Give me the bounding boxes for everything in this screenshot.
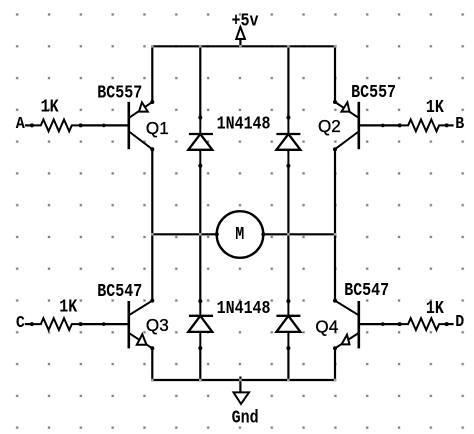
junction motor rail / D2-D4 column <box>287 233 290 236</box>
wire R2 to Q2 base <box>359 124 400 128</box>
resistor R4 <box>398 318 449 330</box>
wire node B to R2 <box>447 124 453 126</box>
diode D4 (1N4148) <box>276 299 300 350</box>
junction bottom rail / Q3 emitter <box>151 379 154 382</box>
transistor Q4 (BC547 NPN) <box>333 299 359 351</box>
diode D3 (1N4148) <box>188 299 213 350</box>
svg-text:BC547: BC547 <box>97 282 142 303</box>
junction top rail / +5v stem <box>239 45 242 48</box>
wire motor rail to D4 cathode <box>287 234 289 301</box>
wire Q3 emitter to ground rail <box>151 348 153 380</box>
svg-text:M: M <box>235 225 244 246</box>
wire top rail (+5v net) <box>152 45 335 47</box>
svg-text:Gnd: Gnd <box>232 408 259 429</box>
svg-text:Q1: Q1 <box>146 118 169 139</box>
junction bottom rail / D4 <box>287 379 290 382</box>
svg-text:1K: 1K <box>426 97 445 118</box>
svg-text:1K: 1K <box>41 97 60 118</box>
wire D2 anode to motor rail <box>287 166 289 235</box>
svg-text:BC557: BC557 <box>351 83 396 104</box>
wire node C to R3 <box>26 323 32 325</box>
wire R1 to Q1 base <box>81 124 129 128</box>
junction motor rail / D1-D3 column <box>199 233 202 236</box>
wire R4 to Q4 base <box>359 322 400 326</box>
wire D3 anode to ground rail <box>199 348 201 380</box>
motor M1 <box>215 211 265 258</box>
wire Q1 emitter to +5v rail <box>151 46 153 102</box>
transistor Q2 (BC557 PNP) <box>333 100 359 151</box>
wire motor rail right <box>263 233 335 235</box>
svg-text:1N4148: 1N4148 <box>217 114 271 135</box>
wire node A to R1 <box>26 124 32 126</box>
wire Q2 emitter to +5v rail <box>334 46 336 102</box>
svg-text:+5v: +5v <box>232 11 259 32</box>
resistor R2 <box>398 120 449 132</box>
junction bottom rail / D3 <box>199 379 202 382</box>
wire motor rail to D3 cathode <box>199 234 201 301</box>
wire Q2 collector to motor rail <box>334 149 336 234</box>
svg-text:BC547: BC547 <box>344 281 389 302</box>
wire motor rail to Q4 collector <box>334 234 336 300</box>
junction motor rail / Q2 collector <box>334 233 337 236</box>
junction motor rail / Q1 collector <box>151 233 154 236</box>
power symbol +5v <box>236 27 245 46</box>
transistor Q3 (BC547 NPN) <box>129 299 155 351</box>
wire Q1 collector to motor rail <box>151 149 153 234</box>
wire Q4 emitter to ground rail <box>334 348 336 380</box>
diode D2 (1N4148) <box>276 116 300 168</box>
svg-text:Q4: Q4 <box>315 316 338 337</box>
junction bottom rail / Gnd stem <box>239 379 242 382</box>
wire motor rail left <box>152 233 217 235</box>
svg-text:A: A <box>16 114 25 133</box>
wire node D to R4 <box>447 323 453 325</box>
wire D2 cathode to +5v rail <box>287 46 289 117</box>
junction top rail / D1 <box>199 45 202 48</box>
junction bottom rail / Q4 emitter <box>334 379 337 382</box>
junction top rail / Q1 emitter <box>151 45 154 48</box>
wire D4 anode to ground rail <box>287 348 289 380</box>
svg-text:Q3: Q3 <box>146 315 169 336</box>
wire R3 to Q3 base <box>81 322 129 326</box>
junction top rail / Q2 emitter <box>334 45 337 48</box>
wire D1 anode to motor rail <box>199 166 201 235</box>
ground symbol <box>234 378 250 404</box>
diode D1 (1N4148) <box>188 116 213 168</box>
svg-text:1N4148: 1N4148 <box>217 299 271 320</box>
resistor R3 <box>30 318 83 330</box>
svg-text:1K: 1K <box>426 299 445 320</box>
junction top rail / D2 <box>287 45 290 48</box>
wire motor rail to Q3 collector <box>151 234 153 300</box>
wire D1 cathode to +5v rail <box>199 46 201 117</box>
svg-text:C: C <box>16 313 25 332</box>
transistor Q1 (BC557 PNP) <box>129 100 155 151</box>
svg-text:Q2: Q2 <box>318 115 341 136</box>
svg-text:1K: 1K <box>59 297 78 318</box>
svg-text:B: B <box>455 114 464 133</box>
svg-text:D: D <box>455 312 464 331</box>
wire bottom rail (Gnd net) <box>152 379 335 381</box>
resistor R1 <box>30 120 83 132</box>
svg-text:BC557: BC557 <box>97 83 142 104</box>
